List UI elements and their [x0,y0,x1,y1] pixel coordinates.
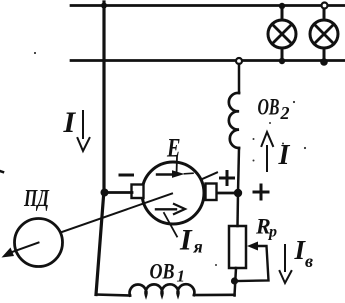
wire brush to plus node [216,192,238,195]
wire rheostat bottom [235,268,237,296]
leader to Ia label [164,213,177,237]
arrow current Iv (down) [280,245,292,283]
svg-text:I: I [179,224,193,257]
lamp HL2 [310,3,338,66]
arrow EMF E inside armature [157,173,173,175]
svg-text:р: р [267,224,277,241]
wire OB2 to plus node [238,148,239,193]
node rheostat bottom junction [231,277,238,284]
arrow current I right (up) [262,132,274,171]
wire bottom bus [96,295,130,296]
wire second bus [71,59,345,62]
arrow current I left (down) [78,111,90,151]
inductor OB1 [130,284,195,295]
svg-text:ОВ: ОВ [258,95,280,120]
svg-text:в: в [305,251,313,271]
wire top bus [71,4,345,7]
generator armature G circle [142,162,204,224]
wiper arrow of Rp [247,242,258,251]
svg-text:ОВ: ОВ [150,259,175,284]
wire wiper return [237,246,269,281]
shaft from PD to armature [62,194,172,233]
arrow Ia inside armature (open head) [156,208,176,210]
lamp HL1 [268,3,296,64]
prime mover PD circle [15,219,63,267]
node OB2 tap ring [236,58,242,64]
leader tick near plus brush [201,173,217,180]
svg-text:1: 1 [177,267,186,286]
svg-text:ПД: ПД [23,186,50,212]
wire left vertical to brush [105,191,132,194]
minus sign at left brush [120,174,133,177]
node top-left junction [101,3,107,9]
wire bottom bus right [194,293,235,296]
node plus junction [234,189,242,197]
tick from E label [176,157,179,176]
plus sign small at right brush [221,172,234,185]
wire plus node to rheostat [236,193,239,226]
resistor Rp rheostat body [229,226,246,268]
inductor OB2 [229,93,239,148]
svg-text:I: I [63,106,77,139]
node left brush junction [101,189,109,197]
wire left vertical [96,2,104,295]
svg-text:2: 2 [280,103,290,123]
svg-text:E: E [166,134,180,163]
wire OB2 drop [238,64,241,93]
plus sign large at node [254,185,268,199]
svg-text:я: я [193,236,203,256]
speck marks [0,171,3,172]
brush right [206,184,217,201]
shaft inside PD with arrow [8,243,39,254]
brush left [132,185,144,199]
svg-text:I: I [278,140,291,171]
